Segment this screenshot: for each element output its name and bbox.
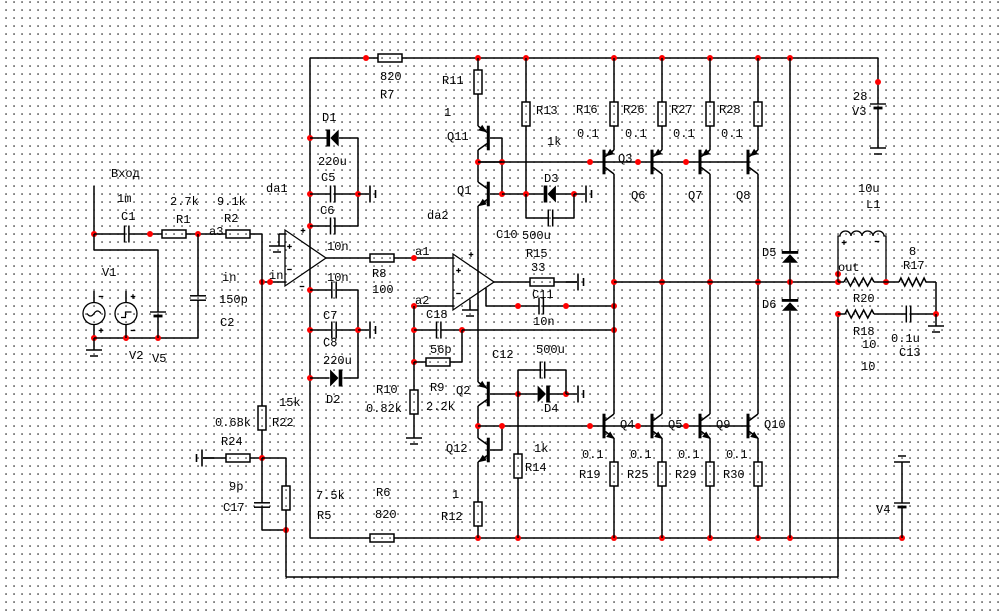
ground C13 [928, 314, 944, 332]
wire feedback right column [837, 314, 839, 577]
svg-text:Q9: Q9 [716, 418, 730, 432]
wire a2 wire [414, 305, 453, 307]
capacitor C18 56p [437, 322, 441, 339]
wire node to C17 [261, 458, 263, 503]
svg-text:R20: R20 [853, 292, 875, 306]
svg-text:R24: R24 [221, 435, 243, 449]
L1 plus [842, 240, 847, 245]
ground da1 +input [269, 234, 285, 252]
wire R28 bottom lead [757, 126, 759, 150]
wire R27 bottom lead [709, 126, 711, 150]
svg-text:C8: C8 [323, 336, 337, 350]
wire C10 right side [573, 194, 575, 218]
node in 2 [267, 279, 273, 285]
wire R9 left lead [414, 361, 426, 363]
svg-text:820: 820 [375, 508, 397, 522]
svg-text:da1: da1 [266, 182, 288, 196]
wire R22 to R24 row [261, 430, 263, 458]
wire Q12 base jog h [490, 449, 502, 451]
wire R13 bottom lead [525, 126, 527, 194]
svg-text:0.68k: 0.68k [215, 416, 251, 430]
svg-text:R27: R27 [671, 103, 693, 117]
junction top rail x=790 [787, 55, 793, 61]
op-amp U da2 [453, 254, 494, 310]
svg-text:1: 1 [452, 488, 459, 502]
wire R11 to Q11 [477, 94, 479, 126]
da1 minus supply mark [300, 286, 305, 288]
svg-text:R29: R29 [675, 468, 697, 482]
capacitor C12 500u [540, 362, 544, 379]
svg-text:C12: C12 [492, 348, 514, 362]
node V1 bottom [91, 335, 97, 341]
svg-text:1: 1 [444, 106, 451, 120]
resistor R30 0.1 [754, 462, 762, 486]
svg-text:V2: V2 [129, 349, 143, 363]
svg-text:C11: C11 [532, 288, 554, 302]
wire da1 output [326, 257, 370, 259]
svg-text:2.7k: 2.7k [170, 195, 199, 209]
wire Q11C-Q1C [477, 150, 479, 182]
svg-text:500u: 500u [522, 229, 551, 243]
junction top rail x=526 [523, 55, 529, 61]
wire Q1 base to D3 [502, 193, 544, 195]
junction bottom rail x=902 [899, 535, 905, 541]
node out [835, 271, 841, 277]
svg-text:R6: R6 [376, 486, 390, 500]
wire Q11 base lead [490, 137, 502, 139]
capacitor C5 220u [331, 186, 335, 203]
node D3 right [571, 191, 577, 197]
resistor R22 15k [258, 406, 266, 430]
transistor Q9 [699, 414, 711, 439]
capacitor C13 0.1u [906, 306, 910, 323]
wire Q1 base lead [490, 193, 502, 195]
ground da2 [462, 300, 478, 317]
node C11 left [515, 303, 521, 309]
svg-text:D1: D1 [322, 111, 336, 125]
transistor Q4 [603, 414, 615, 439]
svg-text:150p: 150p [219, 293, 248, 307]
svg-text:in: in [222, 271, 236, 285]
svg-text:0.1: 0.1 [726, 448, 748, 462]
svg-text:10: 10 [862, 338, 876, 352]
resistor R11 1 [474, 70, 482, 94]
L1 minus [875, 241, 880, 243]
svg-text:C18: C18 [426, 308, 448, 322]
svg-text:D3: D3 [544, 172, 558, 186]
resistor R15 33 [530, 278, 554, 286]
wire C8 right lead [337, 329, 358, 331]
diode D4 [538, 386, 550, 403]
resistor R5 7.5k [282, 486, 290, 510]
junction bottom rail x=758 [755, 535, 761, 541]
svg-text:56p: 56p [430, 343, 452, 357]
wire V1 bottom lead [93, 325, 95, 339]
resistor R28 0.1 [754, 102, 762, 126]
svg-text:da2: da2 [427, 209, 449, 223]
resistor R16 0.1 [610, 102, 618, 126]
svg-text:R8: R8 [372, 267, 386, 281]
terminal cell at D4 row [566, 386, 584, 403]
wire Q6 collector down [661, 174, 663, 414]
resistor R25 0.1 [658, 462, 666, 486]
node Q1 base [499, 191, 505, 197]
svg-text:D4: D4 [544, 402, 558, 416]
wire a2 column [413, 306, 415, 362]
wire Q4 emitter lead [613, 438, 615, 462]
node C18 right [459, 327, 465, 333]
wire D1 right lead [339, 137, 358, 139]
svg-text:Q6: Q6 [631, 189, 645, 203]
wire da1 +input stub [279, 233, 285, 235]
svg-text:15k: 15k [279, 396, 301, 410]
wire C12 top right [545, 369, 566, 371]
wire R17 down [935, 282, 937, 314]
capacitor C11 10n [539, 298, 543, 315]
transistor Q11 [478, 125, 490, 150]
svg-text:7.5k: 7.5k [316, 489, 345, 503]
V2 plus [131, 294, 136, 299]
svg-text:R17: R17 [903, 259, 925, 273]
node R5 bottom [283, 527, 289, 533]
terminal cell at C5 row [358, 186, 376, 203]
wire R2 down to in [261, 234, 263, 282]
wire R20 left lead [838, 281, 844, 283]
wire da2 output [494, 281, 530, 283]
svg-text:C5: C5 [321, 171, 335, 185]
resistor R27 0.1 [706, 102, 714, 126]
svg-text:0.1u: 0.1u [891, 332, 920, 346]
junction bias y162 x=590 [587, 159, 593, 165]
wire R5 top lead [285, 458, 287, 486]
V2 step wave [121, 312, 132, 318]
node V5 bottom [155, 335, 161, 341]
svg-text:10: 10 [861, 360, 875, 374]
svg-text:D5: D5 [762, 246, 776, 260]
svg-text:500u: 500u [536, 343, 565, 357]
svg-text:R12: R12 [441, 510, 463, 524]
junction out rail x=614 [611, 279, 617, 285]
wire R10 top lead [413, 362, 415, 390]
wire R14 top lead [517, 394, 519, 454]
node C8 left [307, 327, 313, 333]
wire R16 top lead [613, 58, 615, 102]
svg-text:10n: 10n [327, 240, 349, 254]
node C1-R1 [147, 231, 153, 237]
svg-text:8: 8 [909, 245, 916, 259]
svg-text:100: 100 [372, 283, 394, 297]
wire D6 down [789, 311, 791, 538]
junction top rail x=366 [363, 55, 369, 61]
svg-text:D6: D6 [762, 298, 776, 312]
wire C13 right lead [911, 313, 936, 315]
svg-text:Вход: Вход [111, 167, 140, 181]
wire C6 left lead [310, 225, 330, 227]
wire y330 run to x614 [462, 329, 614, 331]
svg-text:Q12: Q12 [446, 442, 468, 456]
svg-text:0.1: 0.1 [582, 448, 604, 462]
wire R19 bottom lead [613, 486, 615, 538]
da2 plus input mark [456, 268, 461, 273]
svg-text:R22: R22 [272, 416, 294, 430]
node V3 top [875, 79, 881, 85]
wire C10 bottom right [553, 217, 574, 219]
svg-text:220u: 220u [318, 155, 347, 169]
wire Q7 collector down [709, 174, 711, 414]
diode D6 [782, 299, 799, 311]
svg-text:Q1: Q1 [457, 184, 471, 198]
svg-text:0.1: 0.1 [721, 127, 743, 141]
wire R8 to a1 [394, 257, 414, 259]
svg-text:Q7: Q7 [688, 189, 702, 203]
svg-text:10n: 10n [327, 271, 349, 285]
diode D2 [330, 370, 342, 387]
svg-text:Q10: Q10 [764, 418, 786, 432]
capacitor C6 10n [331, 218, 335, 235]
svg-text:0.1: 0.1 [577, 127, 599, 141]
wire C17 to R5 bottom [262, 529, 286, 531]
wire a3 down [197, 234, 199, 296]
wire Q12 emitter down [477, 462, 479, 502]
wire C5 left lead [310, 193, 330, 195]
wire R26 bottom lead [661, 126, 663, 150]
wire V2 stub [125, 291, 127, 303]
resistor R13 1k [522, 102, 530, 126]
wire out rail [614, 281, 838, 283]
wire feedback to C11 [486, 305, 539, 307]
svg-text:R2: R2 [224, 212, 238, 226]
wire Q1 emitter down [477, 206, 479, 382]
svg-text:V4: V4 [876, 503, 890, 517]
svg-text:R28: R28 [719, 103, 741, 117]
svg-text:C1: C1 [121, 210, 135, 224]
node D4 right [563, 391, 569, 397]
svg-text:R16: R16 [576, 103, 598, 117]
svg-text:R13: R13 [536, 104, 558, 118]
capacitor C2 150p [190, 296, 206, 300]
transistor Q8 [747, 149, 759, 175]
junction out rail x=758 [755, 279, 761, 285]
svg-text:820: 820 [380, 70, 402, 84]
junction top rail x=710 [707, 55, 713, 61]
node a2 [411, 303, 417, 309]
node da1 V- [307, 287, 313, 293]
wire Q12 base jog v [501, 426, 503, 450]
source V1 [83, 303, 105, 325]
wire Q3 collector down [613, 174, 615, 414]
wire R24 node to R5 [262, 457, 286, 459]
da1 plus supply mark [301, 228, 306, 233]
svg-text:out: out [838, 261, 860, 275]
wire R2 out [250, 233, 262, 235]
junction bottom rail x=710 [707, 535, 713, 541]
svg-text:0.1: 0.1 [630, 448, 652, 462]
svg-text:V5: V5 [152, 352, 166, 366]
wire R29 bottom lead [709, 486, 711, 538]
node C11 right [563, 303, 569, 309]
wire power column x=310 [309, 58, 311, 538]
node D2 left [307, 375, 313, 381]
wire R11 top lead [477, 58, 479, 70]
svg-text:33: 33 [531, 261, 545, 275]
wire vertical x=358 lower [357, 290, 359, 378]
wire bottom rail left [310, 537, 370, 539]
junction out rail x=710 [707, 279, 713, 285]
resistor R29 0.1 [706, 462, 714, 486]
junction top rail x=478 [475, 55, 481, 61]
resistor R9 56p [426, 358, 450, 366]
wire R16 bottom lead [613, 126, 615, 150]
wire R27 top lead [709, 58, 711, 102]
V1 minus [99, 296, 104, 298]
wire top rail right [402, 57, 878, 59]
transistor Q2 [478, 381, 490, 406]
resistor R8 100 [370, 254, 394, 262]
resistor R10 0.82k [410, 390, 418, 414]
wire Q5 emitter lead [661, 438, 663, 462]
node Q12 top [475, 423, 481, 429]
wire C18 left lead [414, 329, 436, 331]
svg-text:10n: 10n [533, 315, 555, 329]
resistor R1 2.7k [162, 230, 186, 238]
svg-text:R10: R10 [376, 383, 398, 397]
transistor Q12 [478, 438, 490, 463]
wire C10 left side [525, 194, 527, 218]
wire D3 right lead [556, 193, 574, 195]
battery V4 [894, 503, 910, 507]
wire R26 top lead [661, 58, 663, 102]
transistor Q5 [651, 414, 663, 439]
wire Q2C down [477, 406, 479, 438]
svg-text:R7: R7 [380, 88, 394, 102]
capacitor C10 500u [548, 210, 552, 227]
junction bottom rail x=662 [659, 535, 665, 541]
transistor Q3 [603, 149, 615, 175]
da1 plus input mark [287, 244, 292, 249]
svg-text:C7: C7 [323, 309, 337, 323]
junction base y426 x=686 [683, 423, 689, 429]
wire D2 left lead [310, 377, 330, 379]
junction bottom rail x=518 [515, 535, 521, 541]
node D1 left [307, 135, 313, 141]
svg-text:Q2: Q2 [456, 384, 470, 398]
node C18 left [411, 327, 417, 333]
wire in down to R22 [261, 282, 263, 406]
wire C7 right lead [337, 289, 358, 291]
terminal cell at D3 row [574, 186, 592, 203]
junction base y426 x=502 [499, 423, 505, 429]
inductor L1 [838, 231, 886, 282]
svg-text:0.82k: 0.82k [366, 402, 402, 416]
battery V3 [870, 104, 886, 108]
wire R18 to C13 [874, 313, 906, 315]
svg-text:C13: C13 [899, 346, 921, 360]
svg-text:2.2k: 2.2k [426, 400, 455, 414]
node vbe mult right [499, 159, 505, 165]
node C5 right [355, 191, 361, 197]
capacitor C7 10n [332, 282, 336, 299]
wire Q2 base lead [490, 393, 518, 395]
wire D2 right lead [344, 377, 359, 379]
svg-text:L1: L1 [866, 198, 880, 212]
svg-text:1k: 1k [547, 135, 561, 149]
node D3 left [523, 191, 529, 197]
junction top rail x=614 [611, 55, 617, 61]
node R24 [259, 455, 265, 461]
wire bottom rail right [394, 537, 902, 539]
node R9 left [411, 359, 417, 365]
wire V5 bottom lead [157, 316, 159, 338]
svg-text:0.1: 0.1 [678, 448, 700, 462]
wire R17 left lead [886, 281, 899, 283]
resistor R20 [844, 278, 874, 286]
svg-text:Q11: Q11 [447, 130, 469, 144]
wire base wire y=426 [478, 425, 747, 427]
svg-text:D2: D2 [326, 393, 340, 407]
junction base y426 x=638 [635, 423, 641, 429]
svg-text:9.1k: 9.1k [217, 195, 246, 209]
junction base y426 x=590 [587, 423, 593, 429]
svg-text:C10: C10 [496, 228, 518, 242]
node D4 left [515, 391, 521, 397]
capacitor C17 9p [254, 503, 270, 507]
node y330 x614 [611, 327, 617, 333]
capacitor C8 220u [332, 322, 336, 339]
svg-text:1m: 1m [117, 192, 131, 206]
wire feedback down left [285, 530, 287, 577]
wire R13 top lead [525, 58, 527, 102]
wire C12 top left [518, 369, 540, 371]
wire Q11 base down [501, 138, 503, 194]
wire R5 bottom lead [285, 510, 287, 530]
diode D5 [782, 251, 799, 263]
node y306 x614 [611, 303, 617, 309]
terminal cell at R15 [566, 274, 584, 291]
junction top rail x=758 [755, 55, 761, 61]
wire R14 bottom lead [517, 478, 519, 538]
svg-text:C6: C6 [320, 204, 334, 218]
svg-text:Q4: Q4 [620, 418, 634, 432]
wire Q9 emitter lead [709, 438, 711, 462]
diode D3 [544, 186, 556, 203]
node input [91, 231, 97, 237]
wire C11 right wire [543, 305, 614, 307]
wire C2 down [197, 300, 199, 338]
wire R1 to R2 [186, 233, 226, 235]
V2 minus [131, 330, 136, 332]
svg-text:a1: a1 [415, 245, 429, 259]
svg-text:220u: 220u [323, 354, 352, 368]
wire V4 upper lead [901, 462, 903, 503]
junction bottom rail x=614 [611, 535, 617, 541]
svg-text:Q5: Q5 [668, 418, 682, 432]
node da1 V+ [307, 223, 313, 229]
wire C10 bottom left [526, 217, 548, 219]
svg-text:in: in [269, 269, 283, 283]
da2 minus input mark [456, 293, 461, 295]
svg-text:1k: 1k [534, 442, 548, 456]
wire D5 to rail [789, 263, 791, 300]
battery V5 [150, 312, 166, 316]
wire da1 -input wire [262, 281, 285, 283]
svg-text:a2: a2 [415, 294, 429, 308]
svg-text:R14: R14 [525, 461, 547, 475]
wire D5 top lead [789, 58, 791, 251]
svg-text:0.1: 0.1 [625, 127, 647, 141]
wire C17 down [261, 507, 263, 530]
wire da2 feedback tap [485, 288, 487, 306]
wire cell to R24 [203, 457, 226, 459]
